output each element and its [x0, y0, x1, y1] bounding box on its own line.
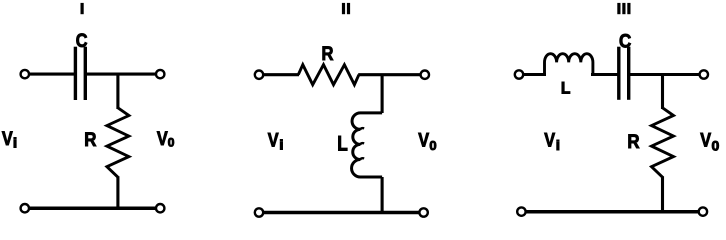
terminal top-right III: [700, 70, 708, 78]
capacitor C (circuit III) plate left: [617, 47, 620, 100]
terminal top-left II: [255, 71, 263, 79]
wire top-right I: [86, 73, 156, 76]
terminal bottom-left I: [21, 204, 29, 212]
terminal top-left III: [515, 70, 523, 78]
wire resistor bottom lead III: [661, 176, 664, 212]
svg-text:V: V: [2, 128, 13, 149]
capacitor C1 plate left: [74, 47, 77, 100]
svg-text:i: i: [13, 136, 17, 151]
inductor L coil hook 2: [360, 143, 364, 145]
svg-text:0: 0: [429, 138, 436, 153]
svg-text:i: i: [279, 138, 283, 153]
wire junction drop III: [661, 75, 664, 110]
svg-text:V: V: [157, 128, 168, 149]
terminal top-right I: [156, 70, 164, 78]
terminal bottom-left II: [255, 208, 263, 216]
svg-text:C: C: [619, 29, 631, 51]
wire top-right II: [358, 73, 420, 76]
wire top-left III: [523, 73, 546, 76]
inductor L (circuit III) coil: [545, 54, 593, 75]
wire top-left I: [29, 73, 74, 76]
terminal top-left I: [21, 70, 29, 78]
wire top-left II: [263, 73, 299, 76]
resistor R (circuit I) zigzag: [107, 108, 129, 177]
wire inductor bottom lead II: [381, 177, 384, 213]
wire resistor bottom lead I: [116, 176, 119, 208]
svg-text:R: R: [84, 128, 96, 150]
wire bottom I: [29, 207, 156, 211]
svg-text:i: i: [556, 139, 560, 154]
wire junction drop I: [116, 74, 119, 109]
wire mid III: [591, 73, 618, 76]
resistor R (circuit II) zigzag: [298, 65, 359, 85]
terminal top-right II: [421, 71, 429, 79]
label III: [617, 3, 620, 14]
terminal bottom-right III: [699, 207, 707, 215]
svg-text:V: V: [418, 129, 429, 150]
wire junction drop II: [381, 75, 384, 113]
inductor L coil hook 1: [360, 128, 364, 130]
svg-text:C: C: [76, 30, 88, 52]
svg-text:L: L: [561, 79, 571, 98]
wire bottom II: [263, 211, 419, 215]
svg-text:V: V: [544, 129, 555, 150]
wire top-right III: [630, 73, 700, 76]
capacitor C (circuit III) plate right: [627, 47, 630, 100]
svg-text:V: V: [268, 129, 279, 150]
svg-text:V: V: [700, 129, 711, 150]
terminal bottom-left III: [517, 207, 525, 215]
svg-text:0: 0: [711, 137, 719, 153]
svg-text:0: 0: [168, 136, 175, 150]
svg-text:R: R: [322, 43, 334, 65]
svg-text:L: L: [337, 133, 348, 156]
terminal bottom-right I: [156, 204, 164, 212]
wire bottom III: [526, 210, 699, 214]
inductor L coil hook 3: [360, 158, 364, 160]
svg-text:R: R: [627, 130, 639, 152]
label I: [81, 3, 84, 14]
capacitor C1 plate right: [84, 47, 87, 100]
label II: [342, 3, 345, 14]
terminal bottom-right II: [419, 208, 427, 216]
inductor L (circuit II) coil: [352, 113, 383, 177]
resistor R (circuit III) zigzag: [652, 108, 674, 177]
